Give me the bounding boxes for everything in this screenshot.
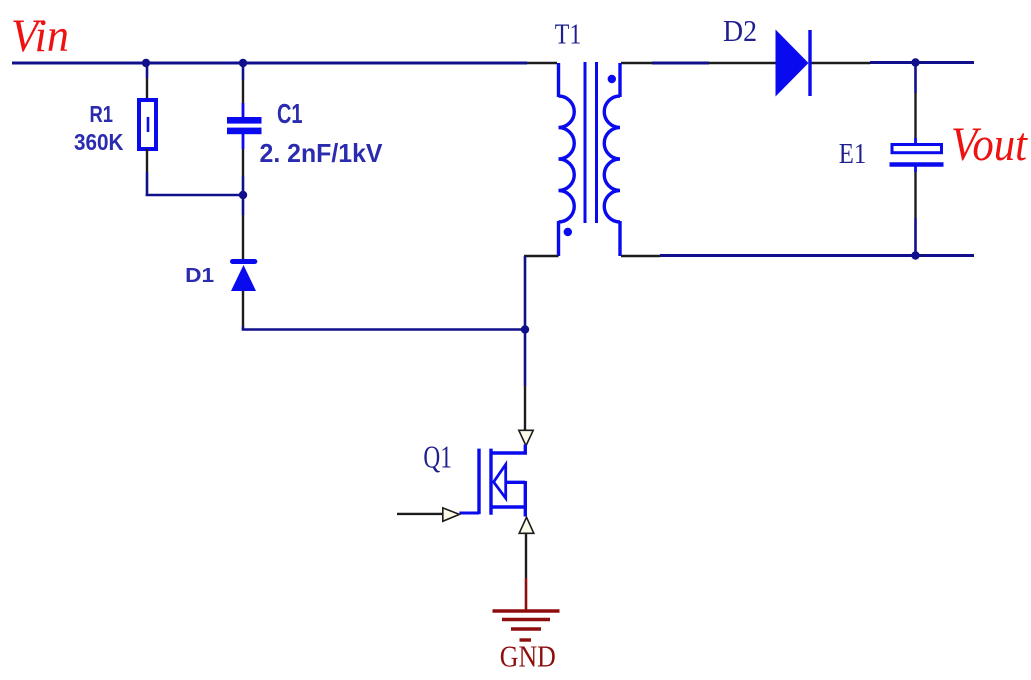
wire D2 anode pin stub (black)	[709, 62, 776, 64]
wire T1 primary top pin stub (black)	[527, 62, 557, 64]
wire R1 top vertical (navy stub then black pin)	[146, 63, 149, 100]
transformer polarity dot primary	[564, 228, 572, 236]
svg-text:D2: D2	[723, 13, 757, 48]
svg-text:Vout: Vout	[951, 118, 1028, 171]
pin arrow Q1 source (open arrowhead up)	[519, 517, 534, 533]
node junction at output bottom	[911, 251, 919, 259]
svg-text:360K: 360K	[74, 129, 124, 155]
wire C1 top vertical (navy stub then black pin)	[242, 63, 245, 118]
node junction at C1 bottom	[239, 191, 247, 199]
wire D2 cathode pin stub (black)	[810, 62, 870, 64]
wire R1 bottom pin and down to corner	[146, 149, 148, 196]
svg-text:C1: C1	[277, 98, 303, 129]
node junction at R1 top	[142, 59, 150, 67]
wire T1 secondary bottom pin stub (black)	[621, 255, 660, 257]
transformer T1 core	[585, 62, 597, 223]
transformer T1 secondary winding	[604, 63, 620, 256]
ground symbol	[493, 611, 560, 640]
svg-text:D1: D1	[185, 265, 214, 287]
svg-text:E1: E1	[839, 138, 867, 170]
wire Vin top rail (navy)	[12, 62, 527, 65]
wire C1 bottom vertical	[242, 134, 245, 195]
wire D1 bottom pin down to corner (black then navy)	[242, 291, 244, 330]
capacitor C1	[227, 117, 262, 134]
transformer T1 primary winding	[559, 63, 575, 256]
node junction at C1 top	[239, 59, 247, 67]
node junction at output top	[911, 58, 919, 66]
node junction at switch node	[521, 325, 529, 333]
wire T1 secondary top pin stub (black)	[621, 62, 652, 64]
wire D2 to output node (navy)	[870, 61, 974, 64]
svg-text:T1: T1	[555, 20, 582, 51]
wire T1 primary bottom pin stub (black)	[524, 255, 559, 257]
svg-text:2. 2nF/1kV: 2. 2nF/1kV	[260, 138, 384, 168]
resistor R1	[139, 100, 156, 149]
wire D1 to switch node horizontal (navy)	[242, 328, 525, 331]
wire secondary top to D2 (navy)	[652, 62, 709, 65]
diode D1	[231, 262, 256, 292]
svg-text:GND: GND	[500, 640, 556, 674]
wire Q1 gate horizontal (black)	[397, 513, 443, 515]
svg-text:Q1: Q1	[423, 439, 452, 475]
wire Q1 source to ground (black then dark red)	[525, 534, 527, 612]
transformer polarity dot secondary	[608, 75, 616, 83]
diode D2	[776, 30, 811, 97]
pin arrow Q1 drain (open arrowhead down)	[519, 430, 533, 445]
wire E1 bottom vertical (blue stub, black pin, navy)	[914, 166, 917, 256]
wire E1 top vertical (navy stub then black pin)	[914, 63, 917, 144]
wire switch node vertical (navy then black to drain arrow)	[524, 256, 527, 430]
wire C1 junction down to D1 (navy stub then black pin)	[242, 195, 245, 260]
wire R1/C1 bottom horizontal (navy)	[146, 194, 243, 197]
wire secondary bottom rail (navy)	[660, 254, 974, 257]
transistor Q1 MOSFET body	[459, 445, 525, 517]
capacitor E1 (polarized)	[890, 145, 944, 165]
pin arrow Q1 gate (open arrowhead right)	[443, 508, 460, 521]
svg-text:Vin: Vin	[11, 10, 69, 62]
svg-text:R1: R1	[90, 101, 114, 127]
